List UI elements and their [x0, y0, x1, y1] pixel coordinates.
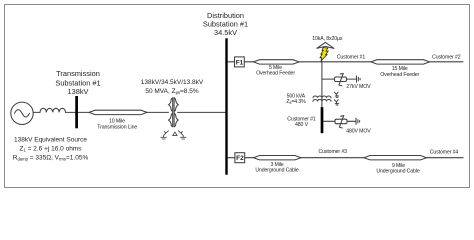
wire: 27kV MOV to ground	[347, 78, 357, 80]
svg-text:10 Mile: 10 Mile	[109, 118, 125, 124]
svg-text:Z1 = 2.6 +j 16.0 ohms: Z1 = 2.6 +j 16.0 ohms	[20, 145, 83, 152]
svg-text:Customer #3: Customer #3	[319, 149, 348, 155]
wye-ground mark: T2 winding A	[334, 92, 338, 97]
svg-text:Underground Cable: Underground Cable	[255, 168, 298, 174]
wire: 480V MOV to ground	[347, 120, 356, 122]
wire: 9-mile cable to customer 4	[427, 157, 464, 159]
fuse F2	[235, 153, 245, 163]
svg-text:Transmission: Transmission	[56, 69, 100, 78]
wire: 15-mile feeder to customer 2	[430, 61, 464, 63]
wire: transformer to distribution bus	[178, 111, 226, 113]
svg-text:34.5kV: 34.5kV	[214, 28, 237, 37]
svg-text:138kV/34.5kV/13.8kV: 138kV/34.5kV/13.8kV	[141, 79, 204, 86]
svg-text:Zs=4.3%: Zs=4.3%	[286, 99, 306, 105]
svg-text:Customer #1: Customer #1	[337, 55, 366, 61]
svg-text:Customer #4: Customer #4	[430, 150, 459, 156]
fuse F1	[235, 57, 245, 67]
ground: 480V MOV	[355, 118, 357, 124]
transformer T2: 500 kVA winding B	[313, 99, 331, 101]
wire: node to 27kV MOV	[322, 78, 335, 80]
wire: fuse F2 to 3-mile cable	[245, 157, 254, 159]
wire: fuse F1 to 5-mile feeder	[244, 61, 253, 63]
surge arrow chevron	[317, 42, 335, 48]
delta mark: T1 middle	[173, 132, 177, 135]
svg-text:10kA, 8x20µs: 10kA, 8x20µs	[312, 36, 343, 42]
svg-text:Customer #2: Customer #2	[432, 54, 461, 60]
transformer T1 secondary winding	[175, 98, 179, 126]
MOV arrester: 27kV	[335, 77, 347, 82]
bus: Transmission Substation #1 138kV	[75, 96, 78, 128]
wye-ground mark: T1 left	[161, 131, 169, 139]
wire: customer 1 node drop to 500kVA transformer	[321, 62, 323, 108]
wire: 5-mile feeder to customer 1 node and on to 15-mile feeder	[299, 61, 371, 63]
wye-ground mark: T1 right	[178, 131, 186, 139]
transmission line: 10 Mile	[89, 110, 147, 114]
svg-text:Overhead Feeder: Overhead Feeder	[380, 72, 419, 78]
inductor L1: source impedance	[40, 108, 66, 112]
svg-text:27kV MOV: 27kV MOV	[346, 84, 371, 90]
wire: inductor to transmission bus	[66, 111, 76, 113]
wire: transmission bus to 10-mile line	[78, 111, 89, 113]
cable: 3 Mile Underground	[254, 156, 302, 160]
svg-text:F1: F1	[236, 59, 244, 66]
wire: 10-mile line to transformer	[147, 111, 169, 113]
wire: source to inductor	[33, 111, 40, 113]
feeder line: 5 Mile Overhead	[254, 60, 300, 64]
svg-text:50 MVA, Zps=8.5%: 50 MVA, Zps=8.5%	[145, 88, 199, 95]
svg-text:480V MOV: 480V MOV	[346, 129, 371, 135]
wire: customer 1 bus to 480V MOV	[323, 120, 335, 122]
cable: 9 Mile Underground	[364, 156, 427, 160]
svg-text:Underground Cable: Underground Cable	[376, 169, 419, 175]
MOV arrester: 480V	[335, 119, 347, 124]
bus: Distribution Substation #1 34.5kV	[225, 38, 227, 175]
wire: distribution bus to fuse F1	[228, 61, 235, 63]
svg-text:F2: F2	[236, 155, 244, 162]
wire: 3-mile cable to 9-mile cable	[301, 157, 364, 159]
wye-ground mark: T2 winding B	[334, 100, 338, 105]
transformer T1 core	[172, 98, 174, 127]
svg-text:480 V: 480 V	[295, 122, 309, 128]
svg-text:138kV: 138kV	[68, 87, 89, 96]
wire: distribution bus to fuse F2	[228, 157, 235, 159]
svg-text:Transmission Line: Transmission Line	[97, 125, 137, 131]
feeder line: 15 Mile Overhead	[371, 60, 430, 64]
transformer T2: 500 kVA winding A	[313, 96, 331, 98]
lightning bolt: 10kA 8x20us surge	[320, 48, 328, 62]
svg-text:138kV Equivalent Source: 138kV Equivalent Source	[14, 136, 87, 143]
ground: 27kV MOV	[356, 76, 358, 82]
bus: Customer #1 480V	[321, 107, 324, 133]
AC source U1: 138kV equivalent	[11, 102, 33, 124]
svg-text:Overhead Feeder: Overhead Feeder	[256, 71, 295, 77]
transformer T1 primary winding	[169, 98, 173, 126]
